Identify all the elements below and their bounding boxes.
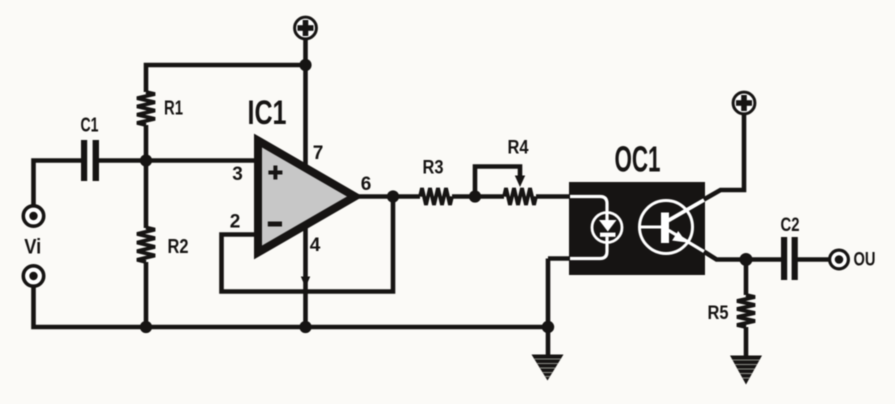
svg-text:4: 4 [310, 235, 321, 256]
svg-text:2: 2 [230, 212, 241, 233]
svg-text:IC1: IC1 [248, 94, 287, 132]
svg-text:C2: C2 [781, 214, 800, 236]
svg-text:Vi: Vi [24, 236, 41, 259]
svg-text:R1: R1 [164, 98, 183, 120]
svg-text:R5: R5 [708, 302, 729, 324]
svg-text:C1: C1 [81, 115, 99, 137]
svg-text:3: 3 [232, 164, 243, 185]
svg-text:R3: R3 [423, 157, 444, 179]
svg-text:6: 6 [361, 174, 372, 195]
svg-text:R4: R4 [508, 137, 529, 159]
svg-text:OU: OU [854, 249, 876, 271]
svg-text:R2: R2 [168, 236, 189, 258]
svg-text:7: 7 [313, 143, 324, 164]
svg-text:OC1: OC1 [615, 139, 661, 180]
